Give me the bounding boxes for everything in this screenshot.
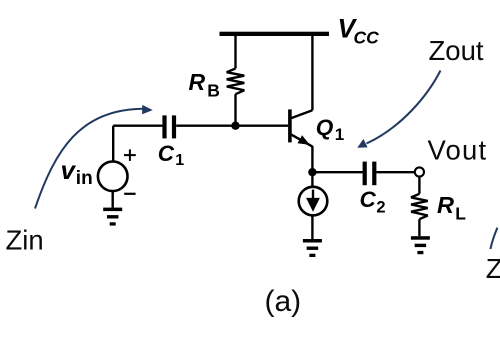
- svg-text:2: 2: [376, 199, 385, 217]
- svg-text:1: 1: [175, 152, 184, 169]
- svg-text:Zin: Zin: [6, 224, 44, 255]
- svg-text:Q: Q: [316, 115, 334, 140]
- svg-text:R: R: [437, 192, 454, 218]
- svg-text:(a): (a): [265, 285, 302, 318]
- svg-text:L: L: [455, 204, 466, 224]
- svg-text:R: R: [189, 69, 206, 95]
- svg-text:C: C: [360, 187, 377, 212]
- svg-text:C: C: [158, 141, 175, 166]
- svg-text:in: in: [76, 168, 93, 189]
- svg-text:1: 1: [335, 125, 344, 144]
- svg-text:CC: CC: [354, 28, 380, 48]
- svg-text:Vout: Vout: [428, 135, 488, 166]
- svg-text:Zout: Zout: [429, 35, 484, 66]
- svg-text:B: B: [207, 80, 220, 100]
- svg-text:Zin: Zin: [486, 253, 500, 284]
- svg-text:v: v: [61, 155, 77, 185]
